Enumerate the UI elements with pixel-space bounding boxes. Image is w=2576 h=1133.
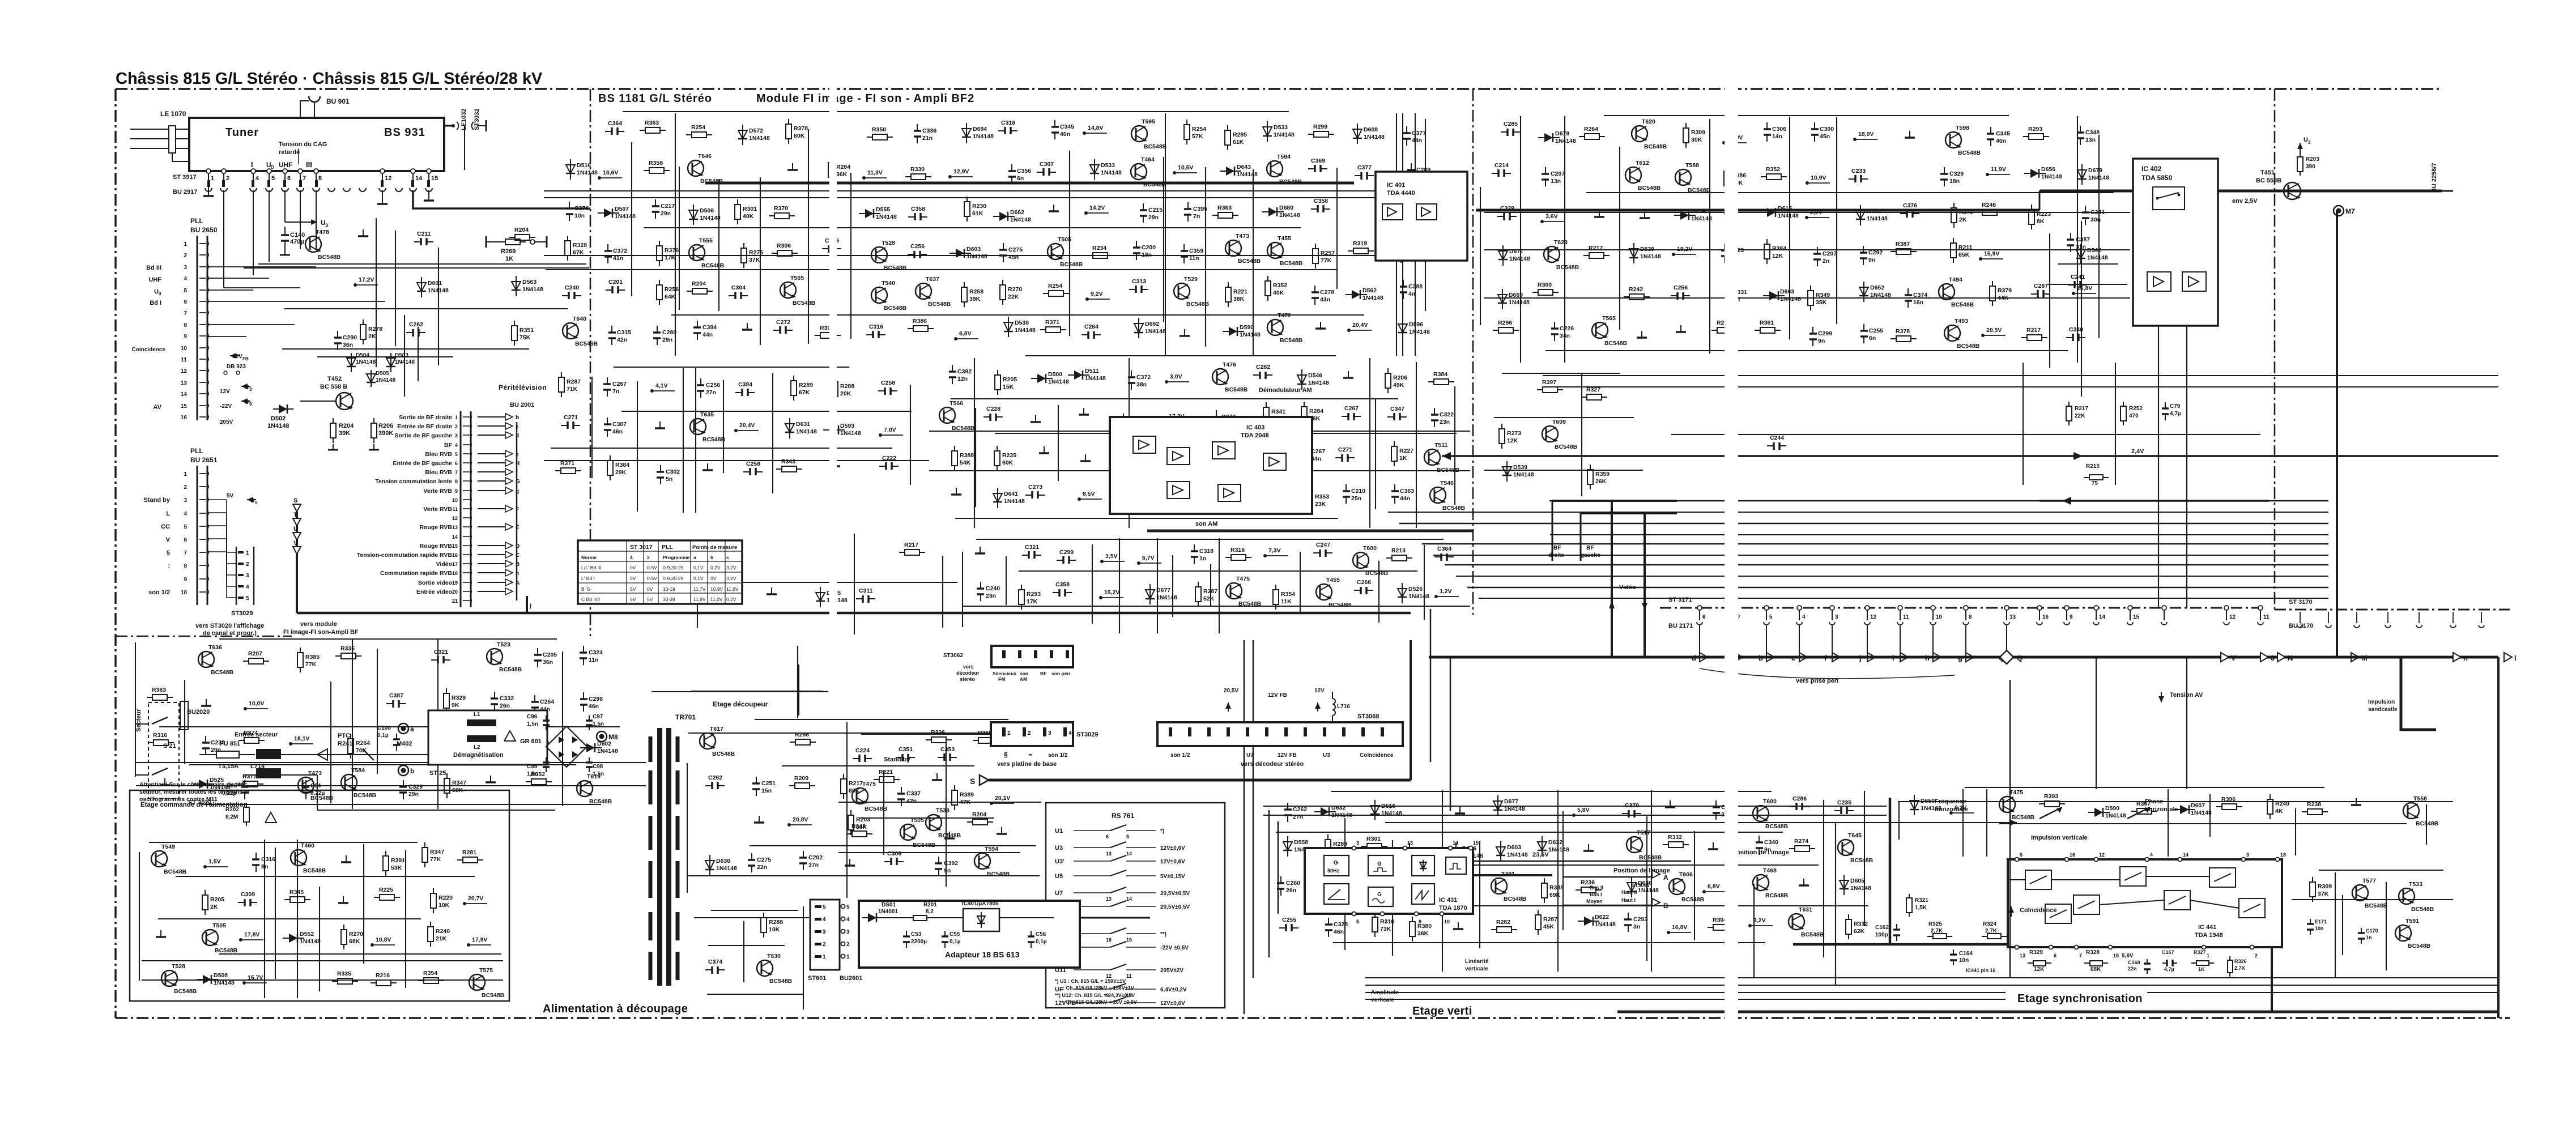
svg-text:470: 470 <box>2129 413 2139 419</box>
svg-text:18n: 18n <box>1949 178 1960 185</box>
wire <box>962 552 963 627</box>
svg-text:BF: BF <box>444 442 453 449</box>
svg-text:R215: R215 <box>2086 463 2100 470</box>
svg-text:C387: C387 <box>2076 236 2090 243</box>
ground <box>1173 487 1174 494</box>
diode D631 <box>789 418 790 438</box>
wire <box>688 875 1040 876</box>
svg-text:R301: R301 <box>743 206 757 212</box>
capacitor C345 <box>1990 127 1991 134</box>
svg-text:R203: R203 <box>2306 156 2319 163</box>
svg-text:Coïncidence: Coïncidence <box>2020 907 2056 914</box>
connector ST601 pin 2 <box>815 943 821 945</box>
svg-text:60K: 60K <box>794 133 805 139</box>
function symbol IC441 <box>2239 898 2265 918</box>
transistor T595 <box>1131 126 1147 142</box>
svg-text:15: 15 <box>2113 953 2119 959</box>
svg-text:2: 2 <box>823 942 826 948</box>
svg-text:D694: D694 <box>973 126 987 133</box>
svg-text:0V: 0V <box>630 565 636 570</box>
function symbol IC441 <box>2073 895 2100 914</box>
capacitor C392 <box>952 365 953 372</box>
svg-text:C267: C267 <box>1344 405 1359 412</box>
svg-text:R347: R347 <box>452 780 466 786</box>
symbol diode gate <box>1412 855 1434 876</box>
ground <box>1588 844 1589 851</box>
svg-text:1N4148: 1N4148 <box>1870 292 1891 299</box>
diode D590 <box>2088 812 2110 813</box>
pin drop wires <box>1699 625 1700 653</box>
signal flag l <box>2504 653 2512 662</box>
svg-text:14: 14 <box>181 391 188 398</box>
svg-text:R384: R384 <box>1433 371 1447 378</box>
svg-text:2K: 2K <box>368 333 376 340</box>
svg-text:Démodulateur AM: Démodulateur AM <box>1259 387 1312 394</box>
svg-text:5: 5 <box>184 288 187 294</box>
amplifier symbol <box>1382 204 1403 220</box>
svg-text:son 1/2: son 1/2 <box>1048 752 1068 759</box>
diode D539 <box>1633 243 1634 263</box>
svg-text:77K: 77K <box>305 661 317 668</box>
capacitor C286 <box>1790 806 1796 807</box>
strip pin <box>1246 727 1249 736</box>
capacitor C307 <box>607 418 608 424</box>
wire <box>750 845 1036 846</box>
svg-text:10,0V: 10,0V <box>249 700 264 707</box>
resistor R354 <box>1275 585 1276 590</box>
svg-text:C285: C285 <box>1504 121 1518 127</box>
svg-text:R306: R306 <box>777 242 791 249</box>
resistor R274 <box>1789 848 1795 849</box>
svg-text:Silencieux: Silencieux <box>993 671 1016 676</box>
svg-text:11,9V: 11,9V <box>1991 166 2006 173</box>
svg-text:45n: 45n <box>1820 133 1830 140</box>
svg-text:1N4148: 1N4148 <box>1513 471 1534 478</box>
svg-text:C202: C202 <box>808 854 823 861</box>
svg-text:T546: T546 <box>1440 480 1454 487</box>
svg-text:BC 558 B: BC 558 B <box>320 384 347 390</box>
svg-text:env 2,5V: env 2,5V <box>2232 198 2258 205</box>
resistor R284 <box>1304 402 1305 407</box>
svg-text:30n: 30n <box>2090 216 2101 223</box>
svg-text:R386: R386 <box>913 318 927 325</box>
function symbol IC441 <box>2045 904 2071 923</box>
svg-text:BC548B: BC548B <box>1957 343 1980 350</box>
svg-text:R326: R326 <box>2234 959 2247 964</box>
strip pin ST3062 <box>1034 650 1037 658</box>
resistor R256 <box>659 280 660 285</box>
diode D605 <box>1843 875 1845 895</box>
svg-text:5: 5 <box>1356 919 1359 925</box>
wire <box>995 433 1457 434</box>
wire <box>694 917 809 918</box>
svg-text:1N4148: 1N4148 <box>1409 329 1430 335</box>
svg-text:12: 12 <box>2229 614 2236 620</box>
wire <box>2098 135 2100 338</box>
diode D636 <box>709 855 710 875</box>
svg-text:R205: R205 <box>210 896 224 903</box>
wire <box>219 638 557 640</box>
wire <box>1454 386 1455 505</box>
module separator ST3171 <box>2274 89 2276 610</box>
strip pin <box>1169 727 1172 736</box>
capacitor C217 <box>655 199 656 206</box>
svg-text:T575: T575 <box>479 967 493 974</box>
capacitor C359 <box>1183 244 1185 251</box>
resistor R379 <box>1992 281 1993 286</box>
transistor T475 <box>852 788 868 804</box>
connector ST601 pin 5 <box>815 905 821 908</box>
transistor T575 <box>469 974 485 990</box>
svg-text:Moyen: Moyen <box>1586 898 1603 904</box>
signal flag b <box>1766 626 1767 657</box>
wire <box>1651 790 1652 972</box>
svg-text:C251: C251 <box>761 780 776 787</box>
svg-text:7,0V: 7,0V <box>884 427 896 433</box>
svg-text:BC548B: BC548B <box>215 947 238 954</box>
inductor L1 <box>467 719 496 726</box>
capacitor C318 <box>1194 544 1195 551</box>
connector BU2650 pin 8 <box>199 324 206 325</box>
svg-text:C287: C287 <box>2034 283 2048 289</box>
svg-text:13: 13 <box>2009 614 2016 620</box>
svg-text:10K: 10K <box>438 902 450 909</box>
svg-text:T600: T600 <box>1763 798 1777 805</box>
svg-text:R327: R327 <box>2194 949 2206 955</box>
connector ST3029 pin 5 <box>238 597 244 599</box>
svg-text:65K: 65K <box>1958 252 1970 258</box>
svg-text:BC548B: BC548B <box>589 798 612 805</box>
svg-text:34n: 34n <box>1560 333 1570 339</box>
transformer winding <box>649 912 653 940</box>
transistor T455 <box>1267 242 1283 258</box>
svg-text:9K: 9K <box>452 702 459 709</box>
capacitor C376 <box>1900 213 1907 214</box>
svg-text:R293: R293 <box>1027 591 1041 598</box>
svg-text:C244: C244 <box>1770 435 1784 441</box>
svg-text:15: 15 <box>452 543 458 549</box>
svg-text:9: 9 <box>2070 614 2073 620</box>
svg-text:R309: R309 <box>2318 883 2332 890</box>
wire <box>910 385 911 485</box>
diode D679 <box>2081 164 2083 185</box>
resistor R217 22K <box>2068 402 2070 406</box>
capacitor C384 <box>735 392 742 393</box>
svg-text:D622: D622 <box>1595 914 1609 921</box>
svg-text:C55: C55 <box>949 931 960 938</box>
svg-text:Sortie de BF droite: Sortie de BF droite <box>399 414 452 421</box>
wire long horizontal <box>1467 587 2328 588</box>
svg-text:TDA 5850: TDA 5850 <box>2141 174 2173 182</box>
svg-text:BC548B: BC548B <box>1437 467 1460 474</box>
svg-text:R289: R289 <box>1333 841 1347 847</box>
capacitor C205 <box>537 648 538 655</box>
svg-text:Entrée secteur: Entrée secteur <box>235 731 278 738</box>
wire <box>136 785 646 786</box>
svg-text:2,7K: 2,7K <box>2234 965 2246 971</box>
resistor R281 <box>1114 458 1119 459</box>
svg-text:1N4148: 1N4148 <box>1279 212 1300 219</box>
svg-text:BC548B: BC548B <box>1442 505 1466 512</box>
wire long horizontal <box>1399 523 2328 524</box>
svg-text:1N4148: 1N4148 <box>2041 173 2062 180</box>
svg-text:R393: R393 <box>2044 793 2058 800</box>
wire <box>1494 417 1634 418</box>
svg-text:R217: R217 <box>2075 406 2088 412</box>
svg-text:C273: C273 <box>1028 484 1042 491</box>
capacitor C240 <box>980 582 981 589</box>
strip pin ST3062 <box>1018 650 1021 658</box>
svg-text:3,5V: 3,5V <box>1105 553 1118 560</box>
wire <box>376 218 377 367</box>
svg-text:§: § <box>1004 751 1008 759</box>
signal flag d <box>1699 626 1700 657</box>
svg-text:R274: R274 <box>1794 838 1808 845</box>
svg-text:R288: R288 <box>769 919 783 926</box>
svg-text:D671: D671 <box>1509 248 1523 255</box>
peri signal flag <box>478 416 509 418</box>
svg-text:C321: C321 <box>434 649 448 655</box>
wire j drop <box>526 596 528 613</box>
resistor R223 <box>2031 205 2032 210</box>
svg-text:R343: R343 <box>851 823 866 830</box>
wire pin14 to right bus <box>413 190 590 208</box>
svg-text:D641: D641 <box>1004 491 1018 497</box>
connector BU2001 pin 5 <box>463 453 470 454</box>
wire <box>1564 116 1565 363</box>
capacitor C290 <box>337 331 338 338</box>
resistor R282 <box>1491 929 1497 930</box>
svg-text:Adapteur 18 BS 613: Adapteur 18 BS 613 <box>945 950 1020 959</box>
resistor R217 <box>843 774 844 779</box>
svg-text:C321: C321 <box>1025 544 1039 551</box>
resistor R397 <box>1537 389 1543 390</box>
svg-text:T635: T635 <box>700 411 714 418</box>
amplifier symbol <box>1167 482 1190 499</box>
svg-text:5,8V: 5,8V <box>1577 807 1590 813</box>
wire <box>687 763 688 893</box>
svg-text:C56: C56 <box>1036 931 1046 938</box>
svg-text:12V: 12V <box>220 389 230 395</box>
svg-text:C240: C240 <box>565 284 579 291</box>
svg-text:1N4148: 1N4148 <box>716 865 737 872</box>
svg-text:8,5V: 8,5V <box>1083 491 1095 497</box>
bus FI image <box>705 182 1354 185</box>
resistor R385 <box>300 648 301 653</box>
svg-text:11n: 11n <box>1189 255 1199 262</box>
module BS1181 bottom edge <box>297 612 1411 615</box>
transistor T528 <box>871 247 887 263</box>
connector ST3171 pin 6 <box>1697 606 1702 610</box>
svg-text:T594: T594 <box>1277 154 1291 160</box>
bus module FI bottom with S flag <box>989 779 1411 782</box>
svg-text:1,5n: 1,5n <box>593 721 604 727</box>
strip pin <box>1002 727 1006 736</box>
svg-text:T588: T588 <box>1685 162 1699 169</box>
capacitor C210 <box>1346 484 1347 491</box>
svg-text:T555: T555 <box>699 237 713 244</box>
svg-text:b: b <box>410 767 414 775</box>
svg-text:D502: D502 <box>271 415 286 422</box>
strip pin ST3062 <box>1002 650 1006 658</box>
wire <box>688 732 1040 734</box>
vertical wire peri bus <box>516 422 518 600</box>
svg-text:R288: R288 <box>840 383 854 390</box>
svg-text:IC 402: IC 402 <box>2141 165 2162 173</box>
svg-text:D538: D538 <box>1015 320 1029 326</box>
connector ST601 pin 3 <box>815 930 821 933</box>
connector BU2001 pin 2 <box>463 425 470 427</box>
svg-text:C272: C272 <box>776 319 790 326</box>
bus vertical video drop 1 <box>1611 501 1613 657</box>
svg-text:4,7µ: 4,7µ <box>2164 966 2174 972</box>
svg-text:R347: R347 <box>430 849 444 855</box>
wire pin15 down <box>428 190 429 199</box>
svg-text:Démagnétisation: Démagnétisation <box>453 752 504 759</box>
svg-text:1N4148: 1N4148 <box>1509 299 1530 306</box>
bus sync horizontal <box>1793 943 2008 946</box>
transistor T566 <box>939 407 955 423</box>
svg-text:B: B <box>1663 902 1668 910</box>
svg-text:4: 4 <box>184 276 187 282</box>
wire 23,5V <box>1473 861 1691 862</box>
diode D552 <box>283 938 304 939</box>
svg-text:R385: R385 <box>1549 884 1564 891</box>
wire <box>1484 212 2130 213</box>
wire <box>258 263 586 265</box>
table Norme ST3017 PLL Points de mesure <box>578 540 742 604</box>
svg-text:D563: D563 <box>522 279 537 286</box>
svg-text:R238: R238 <box>2307 801 2321 808</box>
svg-text:18,0V: 18,0V <box>1858 131 1874 138</box>
wire <box>838 802 1041 803</box>
svg-text:54K: 54K <box>960 459 971 466</box>
svg-text:R207: R207 <box>248 650 262 657</box>
wire bottom horizontal short <box>1365 992 2006 993</box>
diode D680 <box>1262 211 1284 212</box>
svg-text:1N4148: 1N4148 <box>1548 846 1569 853</box>
capacitor C266 <box>1354 590 1361 591</box>
svg-text:R264: R264 <box>1584 126 1598 133</box>
svg-text:18: 18 <box>2280 852 2286 858</box>
transistor T646 <box>688 160 704 176</box>
svg-text:BC548B: BC548B <box>303 867 326 874</box>
svg-text:16: 16 <box>452 552 458 558</box>
svg-text:5: 5 <box>455 452 458 457</box>
connector ST3171 pin x <box>2162 606 2166 610</box>
svg-text:9: 9 <box>1419 919 1421 925</box>
svg-text:C167: C167 <box>2162 949 2174 955</box>
wire <box>1671 434 2260 435</box>
diode D641 <box>997 488 998 508</box>
svg-text:IC401/µA7805: IC401/µA7805 <box>962 901 999 907</box>
svg-text:C210: C210 <box>1351 488 1365 495</box>
resistor R349 <box>1810 286 1811 291</box>
wire <box>1425 119 1426 311</box>
svg-text:6: 6 <box>1702 614 1706 620</box>
svg-text:Amplitude: Amplitude <box>1371 990 1399 996</box>
resistor R368 <box>973 740 978 741</box>
svg-text:Tuner: Tuner <box>225 126 259 139</box>
transistor T612 <box>1625 167 1641 183</box>
diode D539 <box>1506 461 1508 482</box>
svg-text:18,6V: 18,6V <box>603 169 618 176</box>
svg-text:52K: 52K <box>1203 595 1215 602</box>
resistor R350 <box>867 137 872 138</box>
diode D572 <box>742 125 743 145</box>
svg-text:R278: R278 <box>368 326 382 333</box>
resistor R206 <box>1387 368 1389 373</box>
svg-text:20K: 20K <box>840 390 851 397</box>
connector BU2650 pin 1 <box>199 243 206 244</box>
svg-text:0-9,20-29: 0-9,20-29 <box>663 565 684 570</box>
resistor R211 <box>1953 238 1954 243</box>
svg-text:U3: U3 <box>1323 752 1330 759</box>
wire M junctions <box>300 401 336 402</box>
wire <box>1480 187 1481 325</box>
wire <box>1369 358 1370 528</box>
svg-text:12V±0,6V: 12V±0,6V <box>1160 845 1185 851</box>
wire <box>1789 117 1790 339</box>
svg-text:R378: R378 <box>794 125 808 132</box>
svg-text:21: 21 <box>452 598 458 604</box>
svg-text:73K: 73K <box>1380 926 1391 932</box>
svg-text:23K: 23K <box>1315 501 1326 508</box>
svg-text:Fréquence: Fréquence <box>1935 798 1966 805</box>
svg-text:R358: R358 <box>649 160 663 167</box>
svg-text:17,9V: 17,9V <box>472 936 487 943</box>
svg-text:R341: R341 <box>1271 408 1285 415</box>
vertical heavy bus right <box>2336 211 2338 657</box>
svg-text:T631: T631 <box>1799 906 1812 913</box>
capacitor C271 <box>561 425 568 426</box>
transistor T555 <box>689 245 705 261</box>
svg-text:0V: 0V <box>630 576 636 581</box>
potentiometer R330 <box>2039 807 2062 819</box>
wire <box>1300 552 1301 613</box>
svg-text:AV: AV <box>154 404 162 411</box>
svg-text:Bd III: Bd III <box>146 265 161 271</box>
capacitor C292 <box>1863 246 1864 253</box>
svg-text:23n: 23n <box>986 593 996 599</box>
svg-text:1N4148: 1N4148 <box>973 133 994 140</box>
capacitor C240 <box>562 295 569 296</box>
capacitor C377 <box>1355 175 1361 176</box>
capacitor C394 <box>697 321 698 327</box>
svg-text:C318: C318 <box>1199 548 1214 555</box>
resistor R275 <box>743 243 744 248</box>
wire bus pin8 <box>207 336 246 337</box>
svg-text:D680: D680 <box>1279 205 1293 211</box>
svg-text:R354: R354 <box>1281 591 1295 598</box>
svg-text:-22V ±0,5V: -22V ±0,5V <box>1160 945 1189 951</box>
ground <box>1409 843 1410 850</box>
svg-text:IC441 pin 16: IC441 pin 16 <box>1966 968 1996 973</box>
connector ST3171 pin 12 <box>2224 606 2229 610</box>
svg-text:R309: R309 <box>1691 129 1705 136</box>
wire <box>975 408 976 507</box>
capacitor C238 <box>205 736 206 743</box>
svg-text:3: 3 <box>455 433 458 438</box>
svg-text:Verte RVB: Verte RVB <box>423 506 452 513</box>
resistor R300 <box>1532 292 1538 293</box>
resistor R385 <box>1544 878 1545 883</box>
capacitor C329 <box>1944 167 1945 174</box>
resistor R353 <box>1309 487 1310 492</box>
resistor R216 <box>371 982 376 983</box>
svg-text:T505: T505 <box>1058 236 1071 243</box>
svg-text:Coincidence: Coincidence <box>132 347 166 353</box>
